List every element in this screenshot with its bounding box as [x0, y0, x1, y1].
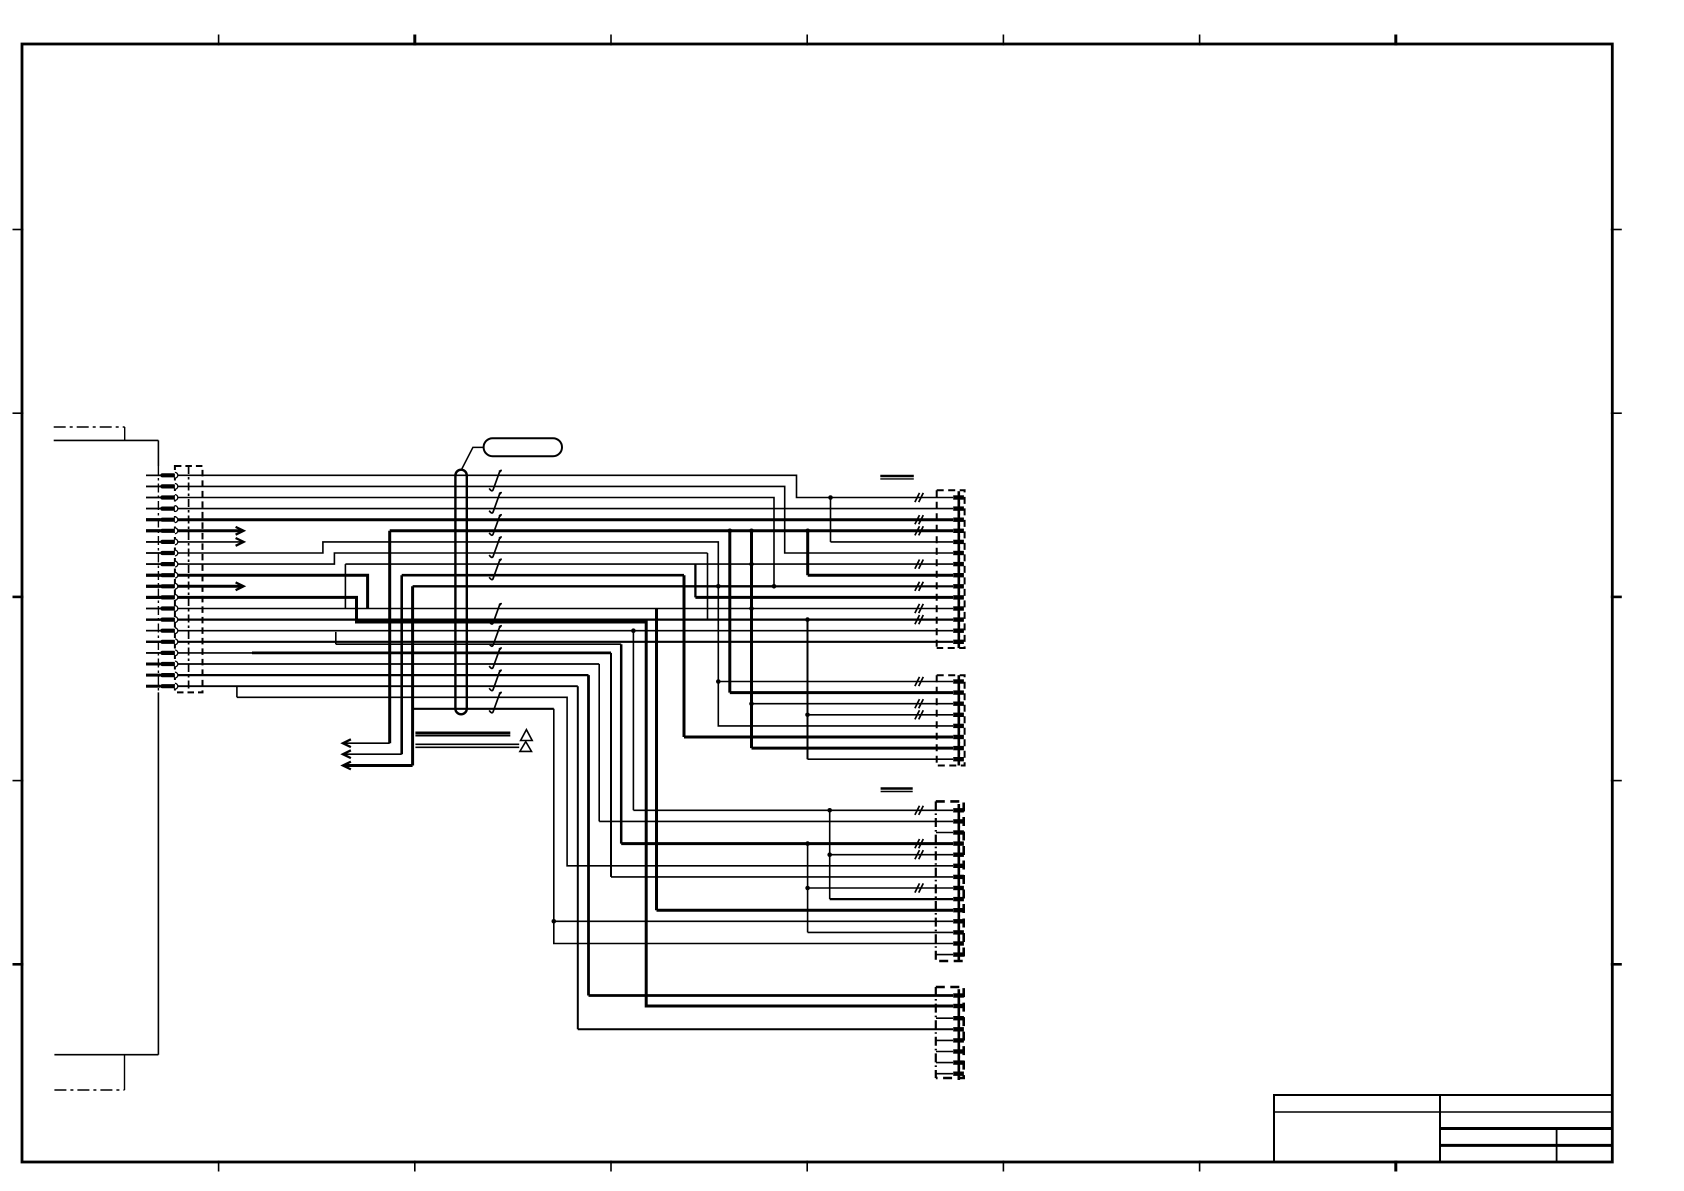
connector B dashed housing: [937, 675, 965, 765]
cable harness pill: [455, 470, 466, 715]
branch pin12 net to connector C pins 8 and 12: [805, 841, 810, 846]
connector C pin 3 stub: [936, 832, 953, 834]
connector CN pin 3: [146, 495, 178, 501]
branch pin10 net down to connector C pin10: [655, 609, 658, 911]
bus slash mark at y 530.8: [915, 526, 923, 535]
wire pair twist mark at y 680.7: [489, 670, 501, 690]
wire pin17 net: [146, 652, 252, 654]
junction harness row 22 to connector C pin11 row: [552, 919, 557, 924]
connector D dashed housing: [936, 987, 964, 1078]
connector A pin 13: [953, 624, 964, 637]
bus slash mark at y 843.6: [915, 839, 923, 848]
triangle symbol 1: [521, 730, 533, 741]
module outline bottom edge: [54, 1054, 158, 1056]
connector CN pin 12: [146, 595, 178, 601]
triangle symbol 2: [520, 742, 532, 752]
bus slash mark at y 619.6: [915, 615, 923, 624]
junction row A9 at x774: [772, 584, 777, 589]
connector A pin 6: [953, 547, 964, 560]
bus slash mark at y 586.3: [915, 582, 923, 591]
wire pin4 net: [146, 508, 953, 510]
twisted pair line group 1: [415, 732, 510, 735]
connector D pin 2: [953, 1000, 964, 1013]
connector A pin 8: [953, 569, 964, 582]
connector CN pin 4: [146, 506, 178, 512]
bus slash mark at y 714.8: [915, 710, 923, 719]
branch connector C pin1 to pins 5 and 9: [827, 808, 832, 813]
connector C pin 3: [953, 826, 964, 839]
title block: [1274, 1095, 1612, 1162]
wire pair twist mark at y 636.3: [489, 626, 501, 646]
connector C pin 1: [953, 804, 964, 817]
connector C pin 2: [953, 815, 964, 828]
wire pair twist mark at y 547.5: [489, 537, 501, 557]
wire branch row A6 down to bus row: [707, 553, 709, 620]
bus slash mark at y 519.7: [915, 515, 923, 524]
wire pair twist mark at y 525.3: [489, 515, 501, 535]
connector CN pin 9: [146, 561, 178, 567]
frame zone ticks bottom: [219, 1161, 1396, 1172]
wire pin13 net: [146, 608, 953, 610]
connector A pin 12: [953, 613, 964, 626]
connector D pin 6: [953, 1045, 964, 1058]
wire pin10 net: [146, 575, 368, 608]
wire pin20 net: [146, 685, 578, 687]
bus slash mark at y 810.3: [915, 806, 923, 815]
wire bus jog row to connector C pin4: [335, 632, 337, 644]
bus slash mark at y 888.0: [915, 883, 923, 892]
connector A dashed housing: [937, 490, 965, 648]
wire pair twist mark at y 480.9: [489, 470, 501, 490]
connector A pin 1: [953, 491, 964, 504]
wire pair twist mark at y 569.7: [489, 559, 501, 579]
connector A pin 2: [953, 502, 964, 515]
connector B pin 6: [953, 731, 964, 744]
wire pair twist mark at y 503.1: [489, 493, 501, 513]
bubble leader line: [462, 447, 484, 469]
connector CN pin 15: [146, 628, 178, 634]
connector C pin 6: [953, 860, 964, 873]
wire pin19 net: [146, 674, 589, 676]
connector B pin 4: [953, 709, 964, 722]
connector A pin 3: [953, 513, 964, 526]
bus slash mark at y 497.5: [915, 493, 923, 502]
bus slash mark at y 703.7: [915, 699, 923, 708]
connector D pin 8 stub: [936, 1073, 953, 1075]
connector A pin 9: [953, 580, 964, 593]
wire return net B down to left arrow 2: [400, 575, 403, 754]
connector B pin 5: [953, 720, 964, 733]
wire pin12 net: [146, 597, 953, 1006]
wire branch to connector B pins 4 and 8: [805, 617, 810, 622]
wire branch to connector A pin8: [805, 529, 810, 534]
connector CN pin 11: [146, 583, 178, 589]
connector C pin 9: [953, 893, 964, 906]
connector A pin 10: [953, 591, 964, 604]
connector CN pin 19: [146, 672, 178, 678]
connector D pin 5 stub: [936, 1039, 953, 1041]
connector C pin 13: [953, 937, 964, 950]
twisted pair line group 2: [415, 743, 519, 745]
connector A pin 7: [953, 558, 964, 571]
connector C dashed housing: [936, 801, 964, 961]
connector CN pin 2: [146, 484, 178, 490]
wire branch to connector A pin10: [694, 564, 696, 597]
wire harness row 21 branch from pin20: [236, 686, 238, 697]
connector CN pin 20: [146, 683, 178, 689]
connector CN pin 18: [146, 661, 178, 667]
connector CN pin 14: [146, 617, 178, 623]
connector C pin 12: [953, 926, 964, 939]
frame zone ticks left: [13, 230, 24, 965]
double line mark above connector C: [881, 789, 913, 792]
connector CN pin 17: [146, 650, 178, 656]
connector CN pin 1: [146, 472, 178, 478]
connector C pin 10: [953, 904, 964, 917]
cable label bubble: [484, 438, 562, 456]
connector CN pin 16: [146, 639, 178, 645]
connector C pin 14 stub: [936, 954, 953, 956]
wire pin1 net: [146, 475, 953, 497]
connector CN pin 8: [146, 550, 178, 556]
connector D pin 5: [953, 1034, 964, 1047]
wire pin6 arrow stub: [146, 529, 243, 532]
connector C pin 7: [953, 871, 964, 884]
module outline bottom chain line: [124, 1055, 126, 1090]
connector B pin 1: [953, 675, 964, 688]
wire pin2 net: [146, 486, 953, 553]
branch pin15 net to connector C pin1: [631, 628, 636, 633]
wire pin15 net: [146, 630, 953, 632]
wire pair twist mark at y 614.1: [489, 604, 501, 624]
connector CN pin 10: [146, 572, 178, 578]
module outline top chain line: [54, 426, 125, 428]
wire pin16 net: [146, 641, 953, 643]
connector C pin 5: [953, 848, 964, 861]
bus slash mark at y 854.7: [915, 850, 923, 859]
connector CN pin 5: [146, 517, 178, 523]
wire branch to connector B pin6: [683, 575, 686, 737]
connector B pin 2: [953, 686, 964, 699]
double line mark above connector A: [880, 476, 914, 479]
connector A pin 5: [953, 536, 964, 549]
connector C pin 14: [953, 948, 964, 961]
connector CN pin 13: [146, 606, 178, 612]
wire pair twist mark at y 658.5: [489, 648, 501, 668]
bus slash mark at y 564.1: [915, 560, 923, 569]
connector D pin 7: [953, 1056, 964, 1069]
wire pin11 arrow stub: [146, 585, 243, 588]
wire return net C down to left arrow 3: [411, 586, 414, 765]
connector CN left dashed housing: [175, 466, 203, 692]
connector C pin 8: [953, 882, 964, 895]
frame zone ticks top: [219, 35, 1396, 46]
wire pin14 net: [146, 618, 953, 620]
connector C pin 11: [953, 915, 964, 928]
module outline top edge: [54, 439, 159, 441]
wire pin5 net: [146, 518, 953, 521]
connector C pin 4: [953, 837, 964, 850]
connector CN left chain centre line: [188, 466, 190, 692]
connector B pin 3: [953, 697, 964, 710]
wire pair twist mark at y 702.9: [489, 692, 501, 712]
connector CN pin 6: [146, 528, 178, 534]
connector A pin 4: [953, 525, 964, 538]
connector CN pin 7: [146, 539, 178, 545]
wire branch to connector B pin2: [728, 529, 733, 534]
wire pin18 net: [146, 663, 599, 665]
wire return net A down to left arrow 1: [388, 531, 391, 743]
junction pin8 net to connector B pin1: [716, 679, 721, 684]
frame zone ticks right: [1611, 230, 1622, 965]
bus slash mark at y 608.5: [915, 604, 923, 613]
connector D pin 7 stub: [936, 1062, 953, 1064]
wire branch to connector B pins 3 and 7: [749, 529, 754, 534]
branch pin13 net fork up: [344, 564, 346, 608]
connector B pin 7: [953, 742, 964, 755]
module outline right edge: [157, 440, 159, 1054]
connector B pin 8: [953, 753, 964, 766]
connector D pin 4: [953, 1023, 964, 1036]
wire pin7 arrow stub: [146, 541, 243, 543]
wire pin8 net: [146, 542, 953, 726]
wire pin3 net: [146, 498, 953, 587]
wire pin9 net: [146, 553, 708, 564]
bus slash mark at y 681.5: [915, 677, 923, 686]
connector D pin 1: [953, 989, 964, 1002]
wire harness row 21 to connector C pin6: [237, 697, 953, 866]
connector D pin 6 stub: [936, 1051, 953, 1053]
connector D pin 3: [953, 1012, 964, 1025]
wire harness row 22 to connector C pin11: [414, 708, 554, 710]
wire branch to connector A pin5: [828, 495, 833, 500]
junction pin8 net crossing row A9: [716, 584, 721, 589]
connector D pin 8: [953, 1067, 964, 1080]
connector D pin 3 stub: [936, 1017, 953, 1019]
connector A pin 11: [953, 602, 964, 615]
connector A pin 14: [953, 636, 964, 649]
